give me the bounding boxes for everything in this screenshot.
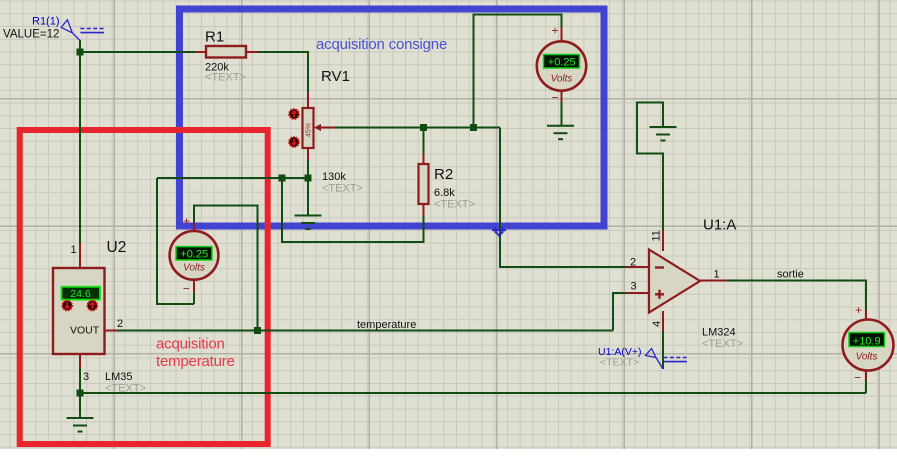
- node: temperature / voltmeter2 plus: [254, 327, 261, 334]
- inverting input minus mark: [655, 266, 664, 268]
- origin marker (blue) on consigne box edge: [492, 227, 506, 236]
- svg-text:R2: R2: [434, 166, 453, 183]
- svg-text:acquisition consigne: acquisition consigne: [316, 36, 447, 53]
- svg-text:3: 3: [631, 281, 637, 293]
- wire: voltmeter2 minus stem: [193, 293, 195, 304]
- wire: wiper row up to top wire and voltmeter1: [474, 15, 562, 128]
- svg-text:−: −: [551, 91, 558, 105]
- ground under voltmeter1: [547, 126, 574, 140]
- sheet margin (white area below grid): [0, 449, 897, 460]
- svg-text:+: +: [551, 24, 558, 38]
- wire: wiper row down to op-amp pin 2: [500, 128, 625, 268]
- annotation box: acquisition temperature (red rectangle): [20, 130, 268, 444]
- svg-text:2: 2: [117, 318, 123, 330]
- wire: op-amp pin 4 down to power terminal: [662, 331, 664, 369]
- node: wiper row / voltmeter1 branch: [470, 124, 477, 131]
- svg-text:VALUE=12: VALUE=12: [3, 29, 59, 41]
- svg-text:Volts: Volts: [551, 74, 573, 85]
- U2 temperature display 24.6: [62, 287, 101, 300]
- svg-text:LM324: LM324: [702, 327, 736, 339]
- svg-text:+10.9: +10.9: [853, 335, 881, 347]
- wire: voltmeter1 minus to ground: [561, 102, 563, 126]
- svg-text:+0.25: +0.25: [180, 248, 208, 260]
- wire: U2 pin 3 to bottom rail and ground: [79, 368, 81, 418]
- svg-text:LM35: LM35: [105, 371, 133, 383]
- svg-text:2: 2: [630, 257, 636, 269]
- pin 1 stub: [700, 280, 727, 282]
- wire: left vertical power to U2 pin 1: [79, 40, 81, 243]
- wire: R2 bottom loop to ground row: [282, 178, 424, 242]
- node: U2 pin3 / bottom rail: [77, 390, 84, 397]
- svg-text:6.8k: 6.8k: [434, 187, 455, 199]
- op-amp triangle body: [649, 250, 700, 313]
- node: power junction: [77, 49, 84, 56]
- wire: ground row horizontal: [157, 177, 308, 179]
- wire: voltmeter3 minus to bottom rail: [865, 381, 867, 393]
- svg-text:acquisition: acquisition: [156, 336, 225, 353]
- svg-text:<TEXT>: <TEXT>: [322, 183, 363, 195]
- wiper arrow: [314, 124, 321, 131]
- U2 down knob: [62, 301, 72, 311]
- svg-text:45%: 45%: [306, 123, 313, 137]
- svg-text:R1(1): R1(1): [32, 16, 60, 28]
- wire: op-amp output to voltmeter3: [727, 281, 867, 311]
- svg-text:<TEXT>: <TEXT>: [600, 357, 639, 369]
- svg-text:Volts: Volts: [856, 352, 878, 363]
- wire: op-amp pin 3 step from temperature line: [613, 293, 625, 331]
- wire: RV1 bottom to ground row: [307, 159, 309, 178]
- svg-text:<TEXT>: <TEXT>: [205, 72, 246, 84]
- svg-text:U1:A: U1:A: [703, 217, 736, 234]
- svg-text:<TEXT>: <TEXT>: [105, 383, 146, 395]
- svg-text:130k: 130k: [322, 171, 346, 183]
- pin 2 stub: [625, 266, 649, 268]
- svg-text:U2: U2: [107, 239, 127, 256]
- power terminal R1(1): [3, 16, 104, 41]
- svg-text:sortie: sortie: [777, 269, 804, 281]
- RV1 down knob: [289, 137, 299, 147]
- ground under RV1: [295, 216, 322, 230]
- wire: bottom rail horizontal: [80, 392, 866, 394]
- resistor R1: [195, 29, 258, 84]
- svg-text:11: 11: [651, 230, 663, 241]
- svg-text:Volts: Volts: [183, 263, 205, 274]
- power terminal U1:A(V+): [598, 346, 687, 369]
- svg-text:VOUT: VOUT: [70, 325, 100, 337]
- svg-text:1: 1: [71, 244, 77, 256]
- non-inverting input plus mark: [655, 293, 664, 295]
- svg-text:RV1: RV1: [321, 68, 350, 85]
- node: wiper row / R2 top: [420, 124, 427, 131]
- wire: temperature net horizontal: [117, 330, 613, 332]
- svg-text:−: −: [183, 282, 190, 296]
- svg-text:temperature: temperature: [357, 319, 416, 331]
- svg-text:4: 4: [651, 321, 663, 327]
- ground under U2 pin3: [67, 418, 94, 432]
- voltmeter sortie (right): [843, 303, 894, 385]
- node: ground row / R2 loop: [279, 175, 286, 182]
- svg-text:<TEXT>: <TEXT>: [434, 199, 475, 211]
- wire: ground row down to voltmeter2 minus loop: [157, 178, 194, 304]
- LM35 U2: [53, 239, 146, 395]
- svg-text:+0.25: +0.25: [548, 57, 576, 69]
- pin 11 stub: [662, 230, 664, 251]
- svg-text:temperature: temperature: [156, 353, 235, 370]
- op-amp U1:A: [625, 217, 743, 351]
- svg-text:+: +: [183, 214, 190, 228]
- svg-text:1: 1: [714, 269, 720, 281]
- voltmeter temperature (left): [170, 214, 219, 296]
- svg-text:−: −: [854, 371, 861, 385]
- svg-text:<TEXT>: <TEXT>: [702, 338, 743, 350]
- pin 3 stub: [625, 292, 649, 294]
- svg-text:24.6: 24.6: [70, 288, 91, 300]
- wire: op-amp pin11 ground loop: [637, 103, 663, 231]
- RV1 up knob: [289, 109, 299, 119]
- node: ground row / RV1 bottom: [305, 175, 312, 182]
- resistor R2: [419, 153, 475, 216]
- wire: R2 top lead up to wiper row: [423, 128, 425, 154]
- wire: power rail top horizontal to R1: [80, 51, 195, 53]
- U2 up knob: [87, 301, 97, 311]
- annotation box: acquisition consigne (blue rectangle): [180, 9, 605, 226]
- svg-text:R1: R1: [205, 29, 224, 46]
- voltmeter consigne (top): [537, 24, 586, 105]
- ground of op-amp pin11 loop: [650, 127, 677, 141]
- wire: R1 right to RV1 top corner: [258, 52, 308, 92]
- wire: voltmeter2 plus loop to temperature net: [194, 206, 257, 331]
- wire: wiper row horizontal: [334, 127, 500, 129]
- potentiometer RV1: [303, 68, 363, 195]
- pin 4 stub: [662, 311, 664, 331]
- svg-text:+: +: [855, 303, 862, 317]
- wire: RV1 ground stem: [307, 178, 309, 215]
- svg-text:3: 3: [83, 371, 89, 383]
